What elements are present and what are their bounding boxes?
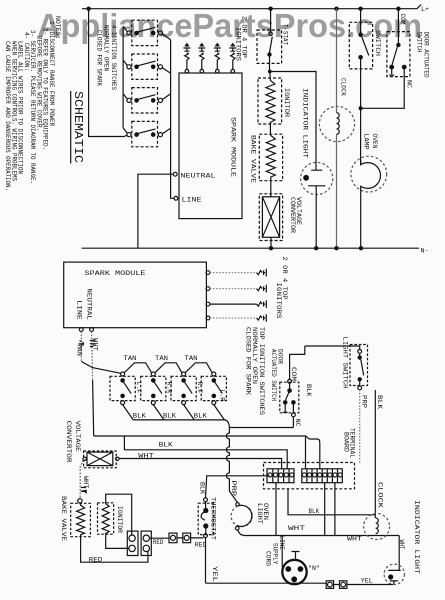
svg-text:IGNITORS: IGNITORS [275,283,282,319]
svg-text:SCHEMATIC: SCHEMATIC [71,91,84,163]
svg-text:BLK: BLK [194,412,207,419]
svg-text:NC: NC [294,419,301,427]
svg-text:"N": "N" [308,565,320,572]
switch thermostat (bottom) [206,476,270,498]
wire neutral from spark module [138,174,173,248]
wire RED to thermostat with inline connectors [150,537,204,539]
switch thermostat T-STAT [257,30,282,63]
lamp indicator light (top) [301,162,333,194]
svg-text:BLK: BLK [376,395,383,409]
wire igniter leads with electrode symbols [210,273,257,318]
svg-text:WHT: WHT [91,338,98,351]
switch oven lamp switch [349,22,372,69]
svg-text:BOARD: BOARD [343,432,350,452]
svg-text:VOLTAGE: VOLTAGE [74,421,81,452]
svg-text:IGNITOR: IGNITOR [283,88,290,117]
svg-text:COM: COM [399,14,406,25]
lamp oven lamp [351,156,387,192]
wire WHT neutral lead with connector [92,331,93,380]
svg-text:CAN CAUSE IMPROPER AND DANGERO: CAN CAUSE IMPROPER AND DANGEROUS OPERATI… [4,41,11,191]
svg-text:TAN: TAN [76,343,83,356]
igniter electrode E2 [198,44,205,70]
svg-text:WHT: WHT [398,540,405,550]
svg-text:TAN: TAN [185,355,198,362]
svg-text:NEUTRAL: NEUTRAL [86,288,93,320]
igniter electrode E3 [214,44,221,70]
svg-text:THERMOSTAT: THERMOSTAT [210,497,217,540]
svg-text:CORD: CORD [265,551,272,566]
svg-text:L.F: L.F [135,382,142,394]
svg-text:LIGHT: LIGHT [256,503,263,524]
resistor ignitor (bottom) [98,503,114,534]
igniter electrode E4 [229,44,236,70]
svg-text:LIGHT SWITCH: LIGHT SWITCH [341,337,348,389]
svg-text:CONVERTOR: CONVERTOR [289,197,296,233]
svg-text:LINE: LINE [182,196,202,203]
wire bus C [124,436,287,469]
svg-text:SWITCH: SWITCH [416,32,423,53]
clock (top) with coil [319,106,354,141]
svg-text:ACTUATED SWITCH: ACTUATED SWITCH [270,349,277,401]
svg-text:YEL: YEL [361,578,373,585]
svg-text:INDICATOR LIGHT: INDICATOR LIGHT [302,88,309,158]
svg-text:SPARK MODULE: SPARK MODULE [85,270,146,277]
wire bus D WHT [119,459,281,469]
switch door actuated (top) [387,32,410,77]
svg-text:BLK: BLK [199,482,206,494]
svg-text:N-: N- [421,248,429,255]
pin spark module bottom terminals [79,328,83,332]
pin spark module top terminals [185,69,189,73]
svg-text:CLOSED FOR SPARK: CLOSED FOR SPARK [244,327,251,395]
wire N- bottom bus [82,247,419,249]
node bus junction dots [86,7,400,11]
svg-text:LAMP: LAMP [363,134,370,150]
wire TAN daisy chain to switches [124,363,212,373]
igniter electrodes (wiring view) [257,269,267,322]
igniter electrode E1 [183,44,190,70]
label burner ids [135,382,226,402]
svg-text:BLK: BLK [309,508,320,515]
svg-text:R.F: R.F [196,382,203,394]
connector block ignitor plug [127,531,138,555]
wire WHT horizontal [244,483,399,536]
svg-text:BAKE VALVE: BAKE VALVE [60,496,67,541]
wire bus B [94,435,306,437]
wire PRP from light switch to board [359,390,361,463]
resistor bake valve (top) [259,134,282,181]
transformer voltage convertor (bottom) [84,451,117,468]
svg-text:IGNITOR: IGNITOR [116,506,123,533]
wire TAN lead with connector [80,331,82,361]
resistor ignitor (top) [258,78,282,124]
svg-text:NORMALLY OPEN: NORMALLY OPEN [103,25,110,71]
svg-text:T-STAT: T-STAT [282,24,289,45]
switch light switch [305,346,360,350]
notes text block [4,16,61,191]
svg-text:4 IGNITION SWITCHES: 4 IGNITION SWITCHES [110,25,117,90]
clock (bottom) [364,514,390,540]
svg-text:WHT: WHT [82,476,89,489]
switch ignition SW1 box [132,20,158,45]
svg-text:CLOCK: CLOCK [340,78,347,96]
svg-text:TAN: TAN [124,355,137,362]
svg-text:BLK: BLK [163,412,176,419]
svg-text:L.R: L.R [219,390,226,402]
wire NC link line [229,427,293,429]
lamp indicator light (bottom) [398,536,400,571]
svg-text:L+: L+ [421,6,429,13]
svg-text:SWITCH: SWITCH [374,30,381,56]
wire BLK from board to clock [288,489,375,515]
svg-text:WHT: WHT [347,536,362,543]
switch burner SW4 [201,376,226,400]
resistor bake valve (bottom) [71,503,91,536]
wire L+ top bus [82,5,421,9]
svg-text:LINE: LINE [76,300,83,320]
svg-text:SUPPLY: SUPPLY [272,543,279,565]
wire line rail down to LINE terminal [171,40,174,199]
pin spark module right terminals [206,271,210,275]
switch door actuated (bottom) [290,346,305,380]
wire left rail from L+ [89,9,127,137]
svg-text:BAKE VALVE: BAKE VALVE [250,135,257,183]
switch ignition SW4 box [132,121,158,146]
supply cord [281,536,283,568]
wire BLK vertical to clock [374,390,376,518]
svg-text:RED: RED [195,541,207,548]
svg-text:OVEN: OVEN [371,134,378,149]
switch burner SW2 [141,376,166,400]
lamp oven light (bottom) [236,503,239,506]
svg-text:TAN: TAN [155,355,168,362]
switch ignition SW2 box [132,54,158,79]
svg-text:CLOSED FOR SPARK: CLOSED FOR SPARK [96,30,103,86]
svg-text:NC: NC [405,80,412,88]
switch ignition SW3 box [132,88,158,113]
svg-text:CONVERTOR: CONVERTOR [65,421,72,463]
wire YEL bus with connectors [206,583,394,584]
wire right diagonals to line rail [162,34,170,134]
svg-text:YEL: YEL [211,566,218,582]
svg-text:AppliancePartsPros.com: AppliancePartsPros.com [37,7,422,44]
terminal board [264,463,355,489]
svg-text:INDICATOR LIGHT: INDICATOR LIGHT [413,500,420,574]
svg-text:R.R: R.R [166,382,173,394]
switch burner SW3 [171,376,196,400]
svg-text:RED: RED [153,539,164,546]
op-amp spark module U1 box [179,73,242,219]
wire inner left rail [123,26,127,133]
svg-text:PRP: PRP [360,395,367,408]
op-amp spark module U2 box [64,262,207,328]
svg-text:BLK: BLK [159,442,173,449]
svg-text:BLK: BLK [133,412,146,419]
wire VC to bake valve with connector [80,460,83,498]
svg-text:WHT: WHT [138,453,154,460]
wire BLK daisy below switches [123,405,225,420]
svg-text:PRP: PRP [230,481,237,497]
wire branch to indicator light [270,72,316,171]
svg-text:WHT: WHT [288,525,305,532]
svg-text:SPARK MODULE: SPARK MODULE [230,117,237,177]
svg-text:NEUTRAL: NEUTRAL [181,173,216,180]
svg-text:CLOCK: CLOCK [377,482,384,508]
svg-text:COM: COM [290,367,297,381]
svg-text:RED: RED [89,556,103,563]
svg-text:BLK: BLK [305,384,312,397]
svg-text:IGNITORS: IGNITORS [235,27,242,61]
transformer voltage convertor (top) [259,194,282,241]
switch burner SW1 [110,376,135,400]
wire PRP drop with hops [226,428,237,503]
